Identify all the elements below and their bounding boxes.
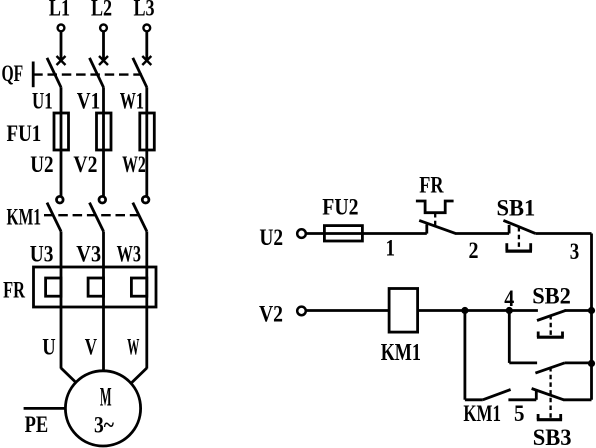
- svg-text:KM1: KM1: [381, 339, 421, 366]
- svg-text:W3: W3: [117, 242, 141, 267]
- svg-text:U: U: [42, 335, 56, 360]
- svg-text:M: M: [100, 383, 112, 412]
- svg-text:3~: 3~: [94, 413, 114, 438]
- svg-text:L2: L2: [91, 0, 112, 20]
- svg-text:1: 1: [386, 236, 396, 261]
- svg-text:V2: V2: [259, 302, 283, 327]
- svg-text:L1: L1: [49, 0, 70, 20]
- svg-text:3: 3: [570, 239, 580, 264]
- svg-text:FU1: FU1: [7, 121, 42, 146]
- svg-text:W: W: [127, 335, 139, 360]
- svg-text:FR: FR: [3, 278, 25, 303]
- svg-text:V: V: [85, 335, 98, 360]
- svg-text:V2: V2: [73, 152, 97, 177]
- svg-text:FR: FR: [419, 173, 444, 198]
- svg-text:V1: V1: [77, 88, 100, 113]
- svg-text:U3: U3: [30, 242, 54, 267]
- svg-text:L3: L3: [134, 0, 155, 20]
- svg-text:KM1: KM1: [7, 205, 42, 230]
- svg-text:PE: PE: [25, 412, 49, 437]
- svg-text:SB3: SB3: [533, 425, 572, 448]
- svg-text:W2: W2: [122, 152, 146, 177]
- svg-text:V3: V3: [76, 242, 101, 267]
- svg-text:KM1: KM1: [463, 401, 501, 426]
- svg-text:SB1: SB1: [497, 196, 536, 221]
- svg-text:2: 2: [469, 238, 479, 263]
- svg-text:QF: QF: [2, 61, 24, 86]
- svg-text:FU2: FU2: [322, 195, 358, 220]
- svg-text:U2: U2: [259, 225, 283, 250]
- svg-text:U1: U1: [32, 89, 53, 114]
- svg-text:4: 4: [504, 286, 514, 311]
- svg-text:W1: W1: [120, 88, 144, 113]
- svg-text:5: 5: [514, 401, 525, 426]
- svg-text:U2: U2: [30, 152, 53, 177]
- svg-text:SB2: SB2: [532, 284, 571, 309]
